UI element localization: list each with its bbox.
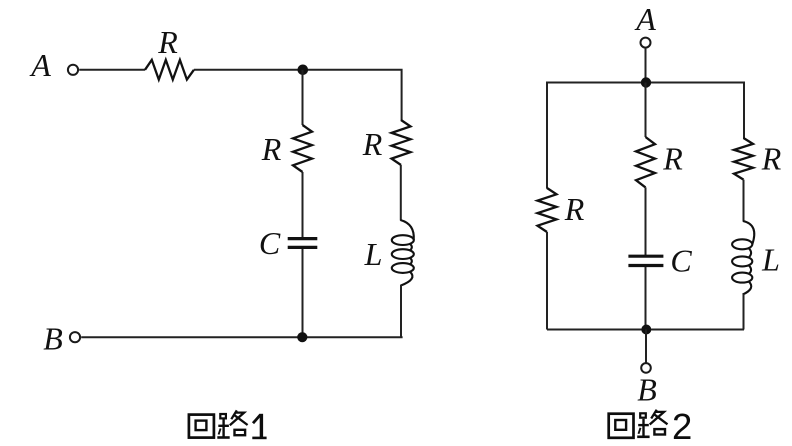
svg-text:B: B xyxy=(43,321,63,357)
wire: R5 to capacitor C2 xyxy=(645,187,647,255)
capacitor C2 plates (circuit 2) xyxy=(628,256,663,265)
kanji 路 right part: horizontal + long left-falling stroke xyxy=(230,413,244,426)
wire: node N1 to top-right corner of right branch xyxy=(303,70,402,121)
wire: terminal A to resistor R1 xyxy=(79,69,145,71)
svg-text:C: C xyxy=(670,243,692,279)
bottom rail wire (circuit 2) xyxy=(547,329,744,331)
digit 1: vertical stroke xyxy=(260,414,263,438)
kanji 回 inner box xyxy=(615,420,626,430)
kanji 路 right part: short top-left falling stroke xyxy=(231,410,237,419)
kanji 回 inner box xyxy=(196,421,207,431)
kanji 路 left radical: small left tick xyxy=(639,428,641,434)
caption 回路1 (Circuit 1) xyxy=(189,410,267,438)
terminal B (circuit 2) xyxy=(641,363,651,373)
resistor R2 (vertical, middle branch, circuit 1) xyxy=(293,125,312,172)
kanji 路 left radical: vertical stem xyxy=(642,419,644,437)
resistor R5 (vertical, middle branch, circuit 2) xyxy=(636,137,655,187)
node N4: bottom junction dot (circuit 2) xyxy=(641,325,651,335)
svg-text:R: R xyxy=(157,24,178,60)
svg-text:R: R xyxy=(662,140,683,176)
wire: terminal A down to node N3 xyxy=(645,48,647,83)
wire: R3 to inductor L1 xyxy=(400,165,402,221)
wire: node N4 down to terminal B xyxy=(645,330,647,364)
inductor L2 coil (circuit 2) xyxy=(732,221,754,295)
resistor R3 (vertical, right branch, circuit 1) xyxy=(392,120,411,165)
wire: L1 down to bottom-right corner xyxy=(400,285,402,337)
svg-text:R: R xyxy=(261,131,282,167)
digit 1: base bar xyxy=(252,437,266,440)
wire: R2 to capacitor C1 xyxy=(302,172,304,238)
kanji 路 left radical: vertical stem xyxy=(222,420,224,438)
wire: R6 to inductor L2 xyxy=(743,180,745,222)
kanji 回 outer box xyxy=(189,415,214,438)
kanji 路 left radical: bottom horizontal xyxy=(637,435,649,438)
inductor L1 coil (circuit 1) xyxy=(392,220,414,286)
kanji 路 left radical: top box xyxy=(640,413,646,417)
svg-text:R: R xyxy=(761,140,782,176)
capacitor C1 plates (circuit 1) xyxy=(288,239,318,248)
node N3: top junction dot (circuit 2) xyxy=(641,77,651,87)
kanji 路 right part: bottom box xyxy=(654,429,665,434)
wire: R1 to node N1 xyxy=(194,69,303,71)
digit 1: flag xyxy=(253,415,261,424)
kanji 路 left radical: top box xyxy=(220,414,226,418)
svg-text:2: 2 xyxy=(672,406,692,446)
node N2: bottom junction dot (circuit 1) xyxy=(297,332,307,342)
kanji 路 left radical: bottom horizontal xyxy=(217,436,229,439)
svg-text:C: C xyxy=(259,225,281,261)
wire: C2 down to node N4 xyxy=(645,267,647,330)
top rail wire (circuit 2) xyxy=(547,83,744,189)
terminal A (circuit 1) xyxy=(68,65,78,75)
wire: node N1 down to resistor R2 xyxy=(302,70,304,125)
resistor R1 (horizontal series R, circuit 1) xyxy=(145,60,194,80)
svg-text:B: B xyxy=(637,372,657,408)
kanji 路 left radical: middle horizontal xyxy=(218,425,229,427)
svg-text:A: A xyxy=(29,47,51,83)
node N1: top junction dot (circuit 1) xyxy=(298,65,309,76)
svg-text:L: L xyxy=(364,236,383,272)
kanji 路 right part: horizontal + long left-falling stroke xyxy=(650,412,664,425)
kanji 回 outer box xyxy=(609,414,634,438)
kanji 路 left radical: middle horizontal xyxy=(638,424,649,426)
svg-text:L: L xyxy=(761,241,780,277)
svg-text:R: R xyxy=(362,126,383,162)
kanji 路 left radical: small left tick xyxy=(219,429,221,435)
kanji 路 right part: right-falling stroke xyxy=(653,414,667,425)
kanji 路 right part: short top-left falling stroke xyxy=(651,410,657,419)
wire: node N3 down to resistor R5 xyxy=(645,83,647,138)
wire: L2 down to bottom rail xyxy=(743,294,745,330)
terminal A (circuit 2) xyxy=(641,38,651,48)
svg-text:R: R xyxy=(564,191,585,227)
kanji 路 right part: bottom box xyxy=(235,430,246,435)
svg-text:A: A xyxy=(634,1,656,37)
caption 回路2 (Circuit 2) xyxy=(609,410,668,438)
wire: R4 down to bottom rail xyxy=(546,232,548,330)
bottom wire: terminal B to right branch (circuit 1) xyxy=(81,336,401,337)
resistor R6 (vertical, right branch, circuit 2) xyxy=(734,138,753,180)
kanji 路 right part: right-falling stroke xyxy=(233,414,247,425)
resistor R4 (vertical, left branch, circuit 2) xyxy=(538,188,557,232)
terminal B (circuit 1) xyxy=(70,332,80,342)
wire: C1 down to node N2 xyxy=(302,249,304,337)
